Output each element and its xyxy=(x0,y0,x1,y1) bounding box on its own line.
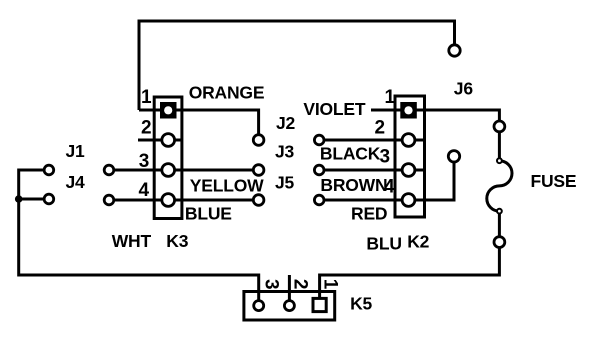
K5 pin 3 xyxy=(254,301,264,311)
K5 pin 2 xyxy=(284,301,294,311)
svg-text:YELLOW: YELLOW xyxy=(190,176,264,196)
svg-text:3: 3 xyxy=(380,147,390,168)
K2 pin 4 xyxy=(402,194,415,207)
svg-text:2: 2 xyxy=(375,117,385,138)
K5 pin 1 square pad xyxy=(313,298,326,311)
K2 pin 2 xyxy=(402,134,415,147)
K3 pin 1 square pad xyxy=(160,102,177,119)
terminal J3 xyxy=(253,165,264,176)
terminal J6 upper xyxy=(449,45,460,56)
K3 pin 2 xyxy=(162,134,175,147)
connector K3 body xyxy=(154,97,182,219)
svg-text:J2: J2 xyxy=(276,113,296,133)
fuse lower small cap xyxy=(497,209,502,214)
svg-text:RED: RED xyxy=(351,203,387,223)
svg-text:J5: J5 xyxy=(275,173,295,193)
terminal J5 xyxy=(253,195,264,206)
svg-text:ORANGE: ORANGE xyxy=(189,83,265,103)
svg-text:2: 2 xyxy=(290,279,311,289)
K3 pin 4 xyxy=(162,194,175,207)
svg-text:BROWN: BROWN xyxy=(320,175,387,195)
svg-text:VIOLET: VIOLET xyxy=(303,99,366,119)
svg-text:BLACK: BLACK xyxy=(320,144,381,164)
svg-text:K3: K3 xyxy=(166,231,188,251)
svg-text:J6: J6 xyxy=(454,79,474,99)
svg-text:4: 4 xyxy=(139,180,150,201)
wire J1 left down to K5 pin 3 xyxy=(19,170,259,306)
terminal K2 pin 2 mate xyxy=(314,135,324,145)
svg-text:1: 1 xyxy=(141,87,152,108)
wire K3 pin 3 row to J3 mate xyxy=(109,169,259,172)
terminal J6 lower xyxy=(448,151,459,162)
wire K2 pin 2 row xyxy=(319,139,424,142)
svg-text:WHT: WHT xyxy=(112,231,152,251)
svg-text:2: 2 xyxy=(141,117,151,138)
svg-text:J3: J3 xyxy=(275,141,295,161)
wire VIOLET stub into K2 pin 1 xyxy=(371,109,395,112)
K3 pin 3 xyxy=(162,164,175,177)
wire K2 pin 1 row to fuse top xyxy=(395,110,499,126)
wire K5 pin 2 stub xyxy=(288,275,291,306)
K2 pin 3 xyxy=(402,164,415,177)
svg-text:FUSE: FUSE xyxy=(531,171,577,191)
terminal K2 pin 4 mate xyxy=(314,195,324,205)
fuse F1 body xyxy=(487,126,512,242)
fuse upper small cap xyxy=(497,158,502,163)
svg-text:1: 1 xyxy=(320,279,341,290)
wire K3 pin 4 row to J5 mate xyxy=(109,199,259,202)
svg-text:BLU: BLU xyxy=(366,233,401,253)
connector K2 body xyxy=(395,96,425,217)
terminal J4 mate xyxy=(104,195,114,205)
wire K3 pin 2 stub xyxy=(138,139,182,142)
wire J4 to left vertical xyxy=(19,198,49,201)
junction dot at J4 tap xyxy=(15,195,23,203)
terminal J4 xyxy=(44,194,54,204)
fuse top terminal xyxy=(494,121,505,132)
terminal K2 pin 3 mate xyxy=(314,165,324,175)
wire fuse bottom down and left to K5 pin 1 xyxy=(320,242,500,298)
svg-text:J1: J1 xyxy=(66,141,86,161)
wire K2 pin 3 row xyxy=(319,169,424,172)
svg-text:J4: J4 xyxy=(66,172,86,192)
fuse bottom terminal xyxy=(494,237,505,248)
svg-text:1: 1 xyxy=(385,87,396,108)
wire top loop from K3 pin 1 up and over to J6 upper terminal xyxy=(139,21,455,110)
wire K2 pin 4 row to J6 lower terminal xyxy=(319,156,454,200)
svg-text:K5: K5 xyxy=(350,293,372,313)
connector K5 body xyxy=(244,292,335,321)
svg-text:3: 3 xyxy=(139,151,149,172)
wire K3 pin 1 row to J2 xyxy=(139,110,259,140)
terminal J1 xyxy=(44,165,54,175)
svg-text:BLUE: BLUE xyxy=(185,204,232,224)
K2 pin 1 square pad xyxy=(400,102,417,119)
svg-text:K2: K2 xyxy=(407,232,429,252)
svg-text:3: 3 xyxy=(261,279,282,289)
terminal J2 xyxy=(253,135,264,146)
terminal J1 mate xyxy=(104,165,114,175)
